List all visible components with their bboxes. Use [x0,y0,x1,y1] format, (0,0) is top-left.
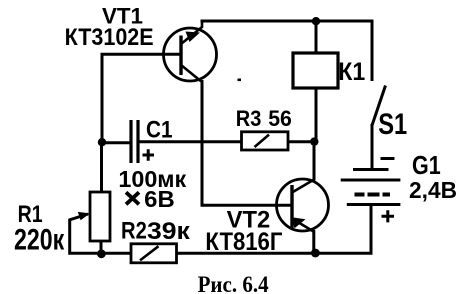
svg-text:2,4В: 2,4В [409,177,457,203]
svg-text:220к: 220к [14,223,65,256]
svg-text:R3: R3 [236,106,262,131]
svg-text:КТ816Г: КТ816Г [205,228,282,256]
svg-text:6В: 6В [144,186,175,212]
svg-text:R2: R2 [121,217,147,244]
svg-text:39к: 39к [147,218,191,245]
svg-text:C1: C1 [146,116,173,143]
svg-text:S1: S1 [378,108,407,141]
svg-text:56: 56 [268,106,292,131]
svg-text:КТ3102Е: КТ3102Е [65,24,154,51]
svg-text:К1: К1 [338,58,365,86]
svg-text:Рис. 6.4: Рис. 6.4 [198,272,269,294]
svg-text:G1: G1 [412,152,441,180]
